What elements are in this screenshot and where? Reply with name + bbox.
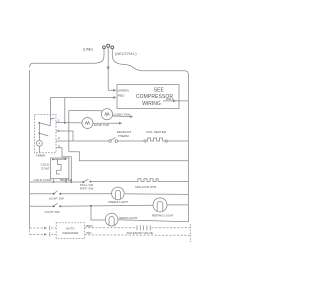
condenser fan motor (101, 109, 112, 120)
wire WH G arrowhead (173, 100, 176, 103)
mullion heater element (136, 179, 160, 182)
light switch 1 arm (54, 191, 58, 194)
light switch 2 contact left (53, 205, 55, 207)
wire vertical red branch to evaporator row (64, 98, 66, 123)
wire defrost row from timer (56, 140, 109, 142)
wire to coil heater (118, 140, 144, 142)
power plug prong right (NEUTRAL) (111, 46, 114, 56)
wire neutral-side from plug to right border (112, 56, 188, 76)
timer motor lead to box bottom (38, 146, 40, 153)
svg-text:BRN: BRN (86, 224, 93, 228)
svg-text:CONT: CONT (41, 166, 50, 170)
wire timer terminal 1 jog to defrost row (56, 131, 73, 141)
coil heater element (146, 138, 165, 141)
svg-text:REFRIG LIGHT: REFRIG LIGHT (152, 213, 174, 217)
wire branch down to refr light (91, 206, 105, 220)
timer switch contact node A (39, 122, 41, 124)
wire coil heater to right border (167, 140, 188, 142)
wire refrig light row from left border (30, 205, 54, 207)
svg-text:LIGHT SW.: LIGHT SW. (49, 197, 65, 201)
wire refrig light to right border (167, 204, 189, 206)
coil heater terminal (144, 140, 146, 142)
wire vertical red into timer switch (49, 98, 51, 121)
wire red line to compressor (50, 97, 113, 99)
cold control bellows symbol (57, 159, 62, 174)
compressor box (117, 85, 179, 109)
ground wire from center prong (108, 56, 113, 91)
svg-text:AUTO: AUTO (66, 227, 75, 231)
wire refr light to right border (118, 220, 189, 222)
refrigerator light lamp (153, 198, 167, 212)
icemaker feed row 2 (dashed) (30, 233, 44, 235)
right dashed border vertical (189, 224, 191, 242)
freezer light lamp (112, 187, 125, 200)
svg-text:COLD CONT.: COLD CONT. (34, 178, 53, 182)
svg-text:(NEUTRAL): (NEUTRAL) (115, 52, 137, 56)
solenoid coil (137, 225, 150, 230)
svg-text:RED: RED (118, 94, 125, 98)
evaporator fan motor (82, 118, 93, 129)
cold control box (50, 158, 69, 179)
cold control bottom leads (53, 179, 55, 182)
wire vertical to condenser fan line (68, 111, 70, 152)
icemaker feed row 1 (dashed) (30, 227, 44, 229)
light switch 1 contact right (59, 193, 61, 195)
light switch 1 contact left (53, 193, 55, 195)
wire left border vertical (29, 70, 31, 228)
svg-text:REFR LIGHT: REFR LIGHT (119, 216, 138, 220)
cold control contact left (52, 159, 54, 161)
svg-text:COIL HEATER: COIL HEATER (146, 130, 167, 134)
light switch 2 contact right (59, 205, 61, 207)
timer box (dashed) (35, 115, 57, 153)
power plug prong left (LINE) (103, 46, 106, 56)
refr light lamp (105, 213, 118, 226)
timer node link vertical (38, 123, 40, 140)
wire line-side from plug to left border (30, 56, 104, 68)
defrost thermostat contact circles (109, 140, 112, 143)
svg-text:TIMER: TIMER (36, 154, 46, 158)
svg-text:MTR. SW.: MTR. SW. (80, 187, 94, 191)
svg-text:WIRING: WIRING (142, 101, 161, 107)
coil heater terminal (165, 140, 167, 142)
wire icemaker out row 1 (dashed) (84, 227, 135, 229)
wire to freezer light (60, 193, 112, 195)
svg-text:HEATER: HEATER (60, 178, 73, 182)
auto icemaker box (dashed) (56, 223, 84, 239)
wire solenoid to right (dashed) (152, 227, 191, 229)
icemaker disconnect row 2 (44, 233, 47, 235)
junction dot at mullion row (70, 181, 72, 183)
wire condenser branch to right border (69, 152, 189, 161)
svg-text:SOLENOID VALVE: SOLENOID VALVE (127, 231, 153, 235)
svg-text:GREEN: GREEN (118, 88, 129, 92)
power plug prong center (ground) (107, 44, 110, 55)
pull-on switch contact right (90, 181, 92, 183)
wire mullion row to heater coil (91, 181, 137, 183)
wire evaporator fan out with arrow (93, 122, 119, 124)
wire evaporator fan feed from timer (56, 122, 82, 124)
svg-text:WH: WH (86, 231, 91, 235)
icemaker left border link (dashed) (29, 228, 31, 234)
junction dot branch (90, 205, 92, 207)
wire condenser fan out with arrow (113, 115, 130, 118)
pull-on switch arm (83, 179, 88, 182)
wire to refrigerator light (60, 205, 153, 206)
timer switch contact node B (39, 133, 41, 135)
timer auxiliary arm (39, 133, 48, 135)
wire right border vertical (188, 75, 190, 222)
red wire arrowhead (113, 96, 116, 99)
svg-text:FREEZ LIGHT: FREEZ LIGHT (108, 200, 128, 204)
light switch 2 arm (54, 203, 58, 206)
timer contact riser and hook (50, 119, 54, 126)
timer switch arm (39, 123, 50, 126)
wire WH G to right border (163, 100, 189, 102)
svg-text:SEE: SEE (154, 88, 165, 94)
wire mullion to right border (160, 181, 189, 183)
svg-text:2: 2 (58, 119, 60, 123)
timer motor (37, 140, 43, 146)
cold control contact right (65, 158, 67, 160)
svg-text:4: 4 (58, 137, 60, 141)
cold control switch arm (53, 158, 65, 160)
junction dot evap row (64, 122, 66, 124)
defrost thermostat arm (111, 138, 116, 141)
wire icemaker out row 2 (dashed) (84, 234, 190, 236)
svg-text:ICEMAKER: ICEMAKER (62, 231, 79, 235)
svg-text:THERM.: THERM. (118, 134, 130, 138)
wire timer terminal 3 to mullion row (56, 148, 71, 182)
ground wire arrow (107, 67, 110, 71)
svg-text:MULLION HTR.: MULLION HTR. (135, 185, 157, 189)
green wire arrowhead into compressor box (113, 89, 116, 92)
pull-on switch contact left (82, 181, 84, 183)
wire condenser fan feed (69, 110, 102, 112)
icemaker disconnect row 1 (44, 227, 47, 229)
svg-text:(LINE): (LINE) (83, 48, 93, 52)
wire mullion row from left border (30, 181, 83, 183)
wire freezer light to right border (125, 193, 189, 196)
svg-text:LIGHT SW.: LIGHT SW. (45, 210, 61, 214)
wire freezer light row from left border (30, 193, 54, 195)
